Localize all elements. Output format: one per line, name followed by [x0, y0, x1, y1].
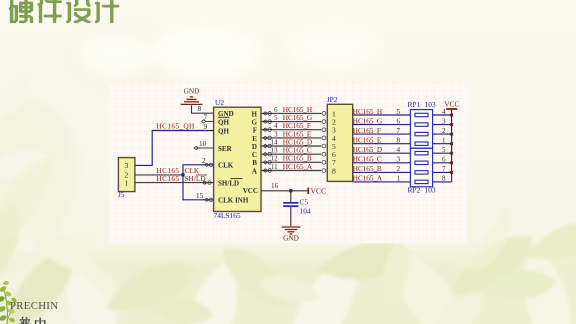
junction C5 tap: [289, 189, 292, 192]
svg-text:RP2: RP2: [408, 186, 421, 195]
svg-text:7: 7: [204, 114, 208, 122]
U2 pin names: [218, 110, 258, 205]
svg-text:H: H: [252, 110, 258, 118]
svg-text:3: 3: [442, 117, 446, 125]
svg-text:5: 5: [274, 115, 278, 122]
svg-text:5: 5: [397, 108, 401, 116]
svg-text:HC165_QH: HC165_QH: [157, 121, 195, 130]
svg-text:74LS165: 74LS165: [214, 211, 241, 220]
wire RP pin to VCC rail: [433, 114, 452, 116]
svg-text:GND: GND: [184, 87, 200, 96]
wire net HC165_B to RP pin 2: [353, 171, 411, 173]
wire RP pin to VCC rail: [433, 124, 452, 126]
U2 pin 9 wire (net HC165_QH): [135, 131, 214, 166]
svg-text:RP1: RP1: [408, 100, 421, 109]
svg-text:13: 13: [271, 148, 278, 155]
connector J5: [118, 158, 134, 192]
svg-text:1: 1: [397, 175, 401, 183]
op-amp U2 74LS165 body: [214, 107, 261, 211]
wire net HC165_C to RP pin 3: [353, 162, 411, 164]
wire net HC165_A to RP pin 1: [353, 181, 411, 183]
junction on VCC rail: [450, 142, 453, 145]
junction on VCC rail: [450, 123, 453, 126]
resistor RP element 8: [415, 180, 428, 183]
junction on VCC rail: [450, 171, 453, 174]
svg-text:2: 2: [442, 127, 446, 135]
svg-text:SH/LD: SH/LD: [218, 180, 239, 188]
svg-text:8: 8: [332, 166, 336, 175]
wire net HC165_D to RP pin 4: [353, 152, 411, 154]
svg-text:HC165_D: HC165_D: [353, 145, 382, 154]
wire RP pin to VCC rail: [433, 152, 452, 154]
svg-text:103: 103: [425, 100, 436, 109]
wire J5.2 to CLK node: [135, 174, 183, 176]
svg-text:J5: J5: [118, 191, 125, 199]
svg-text:1: 1: [442, 137, 446, 145]
svg-text:GND: GND: [218, 110, 234, 118]
wire RP pin to VCC rail: [433, 171, 452, 173]
svg-text:6: 6: [274, 107, 278, 114]
svg-text:10: 10: [199, 140, 207, 148]
svg-text:3: 3: [397, 156, 401, 164]
wire net HC165_E to RP pin 8: [353, 143, 411, 145]
svg-text:D: D: [252, 143, 257, 151]
ground (top, for U2 pin 8): [181, 87, 203, 105]
resistor RP element 3: [415, 132, 428, 135]
svg-text:QH: QH: [218, 118, 229, 126]
slide title 硬件设计: [9, 0, 33, 23]
svg-text:8: 8: [442, 175, 446, 183]
wire U2.4 to JP2.3 net HC165_F: [261, 128, 326, 132]
U2 pin 15 end markers: [205, 198, 213, 201]
wire U2.11 to JP2.8 net HC165_A: [261, 169, 326, 173]
svg-text:C: C: [252, 151, 257, 159]
svg-text:SH/LD: SH/LD: [185, 174, 206, 183]
resistor RP element 6: [415, 161, 428, 164]
schematic sheet background: [109, 82, 467, 243]
svg-text:HC165_F: HC165_F: [353, 126, 381, 135]
capacitor C5: [283, 191, 298, 226]
svg-text:HC165_B: HC165_B: [353, 164, 382, 173]
wire gnd to U2 pin 8: [192, 105, 214, 113]
J5 pin numbers: [125, 161, 129, 187]
svg-text:F: F: [253, 127, 257, 135]
wire U2.14 to JP2.5 net HC165_D: [261, 144, 326, 148]
svg-text:JP2: JP2: [327, 95, 338, 104]
wire J5.1 to U2 pin1 SH/LD: [135, 182, 214, 184]
connector JP2: [327, 104, 352, 181]
wire RP pin to VCC rail: [433, 181, 452, 183]
svg-text:QH: QH: [218, 127, 229, 135]
svg-text:VCC: VCC: [311, 187, 327, 196]
power port VCC (U2 pin 16): [308, 187, 326, 196]
wire U2.6 to JP2.1 net HC165_H: [261, 112, 326, 116]
svg-text:HC165_A: HC165_A: [353, 174, 383, 183]
svg-text:14: 14: [271, 139, 278, 146]
junction on VCC rail: [450, 114, 453, 117]
svg-text:4: 4: [274, 123, 278, 130]
svg-text:6: 6: [397, 117, 401, 125]
wire U2.13 to JP2.6 net HC165_C: [261, 152, 326, 156]
U2 pin 10 stub SER: [194, 140, 214, 149]
svg-text:1: 1: [125, 178, 129, 187]
svg-text:8: 8: [397, 137, 401, 145]
svg-text:E: E: [252, 135, 257, 143]
svg-text:CLK: CLK: [218, 162, 234, 170]
resistor RP element 1: [415, 113, 428, 116]
svg-text:2: 2: [397, 165, 401, 173]
svg-text:HC165_G: HC165_G: [353, 116, 383, 125]
ground (bottom, for C5): [282, 227, 301, 243]
resistor RP element 5: [415, 152, 428, 155]
svg-text:B: B: [252, 159, 257, 167]
wire net HC165_G to RP pin 6: [353, 124, 411, 126]
power port VCC (pull-up rail): [444, 100, 459, 109]
JP2 pin numbers: [332, 109, 336, 175]
resistor RP element 2: [415, 123, 428, 126]
svg-text:4: 4: [442, 108, 446, 116]
svg-text:5: 5: [442, 146, 446, 154]
svg-text:HC165_E: HC165_E: [353, 136, 382, 145]
resistor RP element 7: [415, 171, 428, 174]
wire net HC165_H to RP pin 5: [353, 114, 411, 116]
wire U2.12 to JP2.7 net HC165_B: [261, 160, 326, 164]
svg-text:HC165_C: HC165_C: [353, 155, 382, 164]
wire net HC165_F to RP pin 7: [353, 133, 411, 135]
wire U2 pin16 to VCC: [261, 190, 308, 192]
U2 pin 7 stub: [202, 114, 214, 123]
svg-text:HC165: HC165: [157, 174, 180, 183]
svg-text:SER: SER: [218, 145, 233, 153]
svg-text:HC165_H: HC165_H: [353, 107, 383, 116]
svg-text:C5: C5: [300, 197, 309, 206]
svg-text:3: 3: [274, 131, 278, 138]
junction on VCC rail: [450, 161, 453, 164]
wire U2.5 to JP2.2 net HC165_G: [261, 120, 326, 124]
svg-text:15: 15: [196, 192, 204, 200]
wire RP pin to VCC rail: [433, 133, 452, 135]
svg-text:VCC: VCC: [243, 187, 258, 195]
svg-text:11: 11: [271, 164, 278, 171]
svg-text:U2: U2: [215, 98, 224, 107]
resistor network RP2 box: [410, 148, 432, 187]
svg-text:4: 4: [397, 146, 401, 154]
svg-text:9: 9: [204, 123, 208, 131]
logo plant leaves: [0, 281, 17, 324]
svg-text:7: 7: [442, 165, 446, 173]
svg-text:VCC: VCC: [444, 100, 459, 109]
logo text 普中 (bottom, cut off): [19, 317, 31, 324]
U2 pin 2 end markers: [205, 163, 213, 166]
U2 pin 1 end: [203, 181, 212, 184]
VCC rail: [451, 109, 453, 182]
U2 pin 2 wire CLK: [183, 165, 214, 200]
svg-text:GND: GND: [283, 234, 299, 243]
svg-text:HC165_A: HC165_A: [283, 162, 313, 171]
svg-text:12: 12: [271, 156, 278, 163]
svg-text:G: G: [252, 119, 258, 127]
resistor network RP1 box: [410, 110, 432, 149]
wire RP pin to VCC rail: [433, 162, 452, 164]
svg-text:8: 8: [198, 105, 202, 113]
svg-text:6: 6: [442, 156, 446, 164]
junction: [181, 173, 184, 176]
svg-text:3: 3: [125, 161, 129, 170]
svg-text:104: 104: [300, 207, 311, 216]
svg-text:103: 103: [425, 186, 436, 195]
svg-text:7: 7: [397, 127, 401, 135]
wire U2.3 to JP2.4 net HC165_E: [261, 136, 326, 140]
svg-text:CLK INH: CLK INH: [218, 197, 249, 205]
wire RP pin to VCC rail: [433, 143, 452, 145]
junction on VCC rail: [450, 152, 453, 155]
junction on VCC rail: [450, 133, 453, 136]
resistor RP element 4: [415, 142, 428, 145]
svg-text:16: 16: [271, 182, 279, 190]
